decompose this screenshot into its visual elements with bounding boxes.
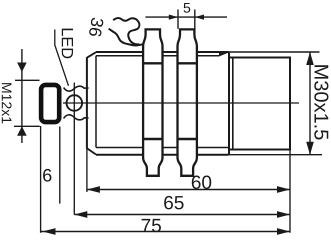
thread crest bottom line (96, 154, 229, 156)
label 65 (164, 196, 183, 209)
centerline (63, 102, 299, 104)
barrel bottom-left chamfer (87, 148, 96, 154)
thread crest top line (96, 51, 229, 53)
M12 dimension extension lines (15, 79, 40, 81)
barrel left edge (86, 57, 88, 149)
dimension 65 line (74, 214, 290, 216)
M30 top extension line (229, 51, 320, 53)
thread chamfer vertical line (95, 56, 97, 148)
dimension 5 arrows (169, 15, 178, 20)
thread runout wedge (219, 51, 229, 56)
thread root top line (96, 55, 219, 57)
clamping claw top (64, 86, 89, 91)
dimension 75 line (41, 231, 290, 233)
lock nut 1 (143, 29, 162, 175)
label 60 (192, 176, 211, 189)
M30 dimension arrows (306, 52, 314, 65)
LED leader line (55, 30, 69, 86)
label 6 (43, 169, 51, 182)
M30 dimension line (309, 52, 311, 155)
extension line from barrel left edge for dim 60 (86, 149, 88, 192)
sensor head left edge (228, 53, 230, 155)
LED label (62, 29, 73, 59)
sensor head M30 body (229, 58, 290, 150)
wrench symbol upper stroke (113, 18, 139, 44)
barrel top-left chamfer (87, 52, 96, 58)
M12 connector plug (41, 85, 59, 122)
wrench symbol lower stroke (109, 29, 143, 46)
M12 dimension line (21, 49, 23, 143)
dimension 60 line (87, 189, 290, 191)
label 5 (184, 3, 191, 13)
lock nut 2 (178, 29, 197, 175)
extension line from connector right for dim 6 (59, 127, 61, 204)
lock nut 1 hex face lines (143, 62, 162, 64)
dimension 60 arrows (87, 186, 100, 193)
extension line from head right edge (289, 58, 291, 233)
M30 bottom extension line (229, 154, 323, 156)
coupling ring circle (67, 95, 83, 111)
extension line from connector left for dim 75 / 6 (40, 126, 42, 233)
label 75 (142, 219, 161, 232)
dimension 5 line (145, 16, 227, 18)
sensor head chamfer line (232, 58, 234, 150)
clamping claw bottom (64, 115, 89, 120)
lock nut 2 hex face lines (178, 62, 197, 64)
M12 dimension arrows (17, 63, 27, 73)
dimension 5 extension lines (177, 10, 179, 29)
thread root bottom line (96, 147, 229, 149)
dimension 65 arrows (74, 211, 87, 218)
M30x1.5 label (314, 65, 328, 139)
M12x1 label (2, 83, 12, 123)
coupling ring vertical centerline / 65 extension line (73, 83, 75, 215)
label 36 (89, 17, 104, 37)
dimension 75 arrows (43, 228, 56, 235)
